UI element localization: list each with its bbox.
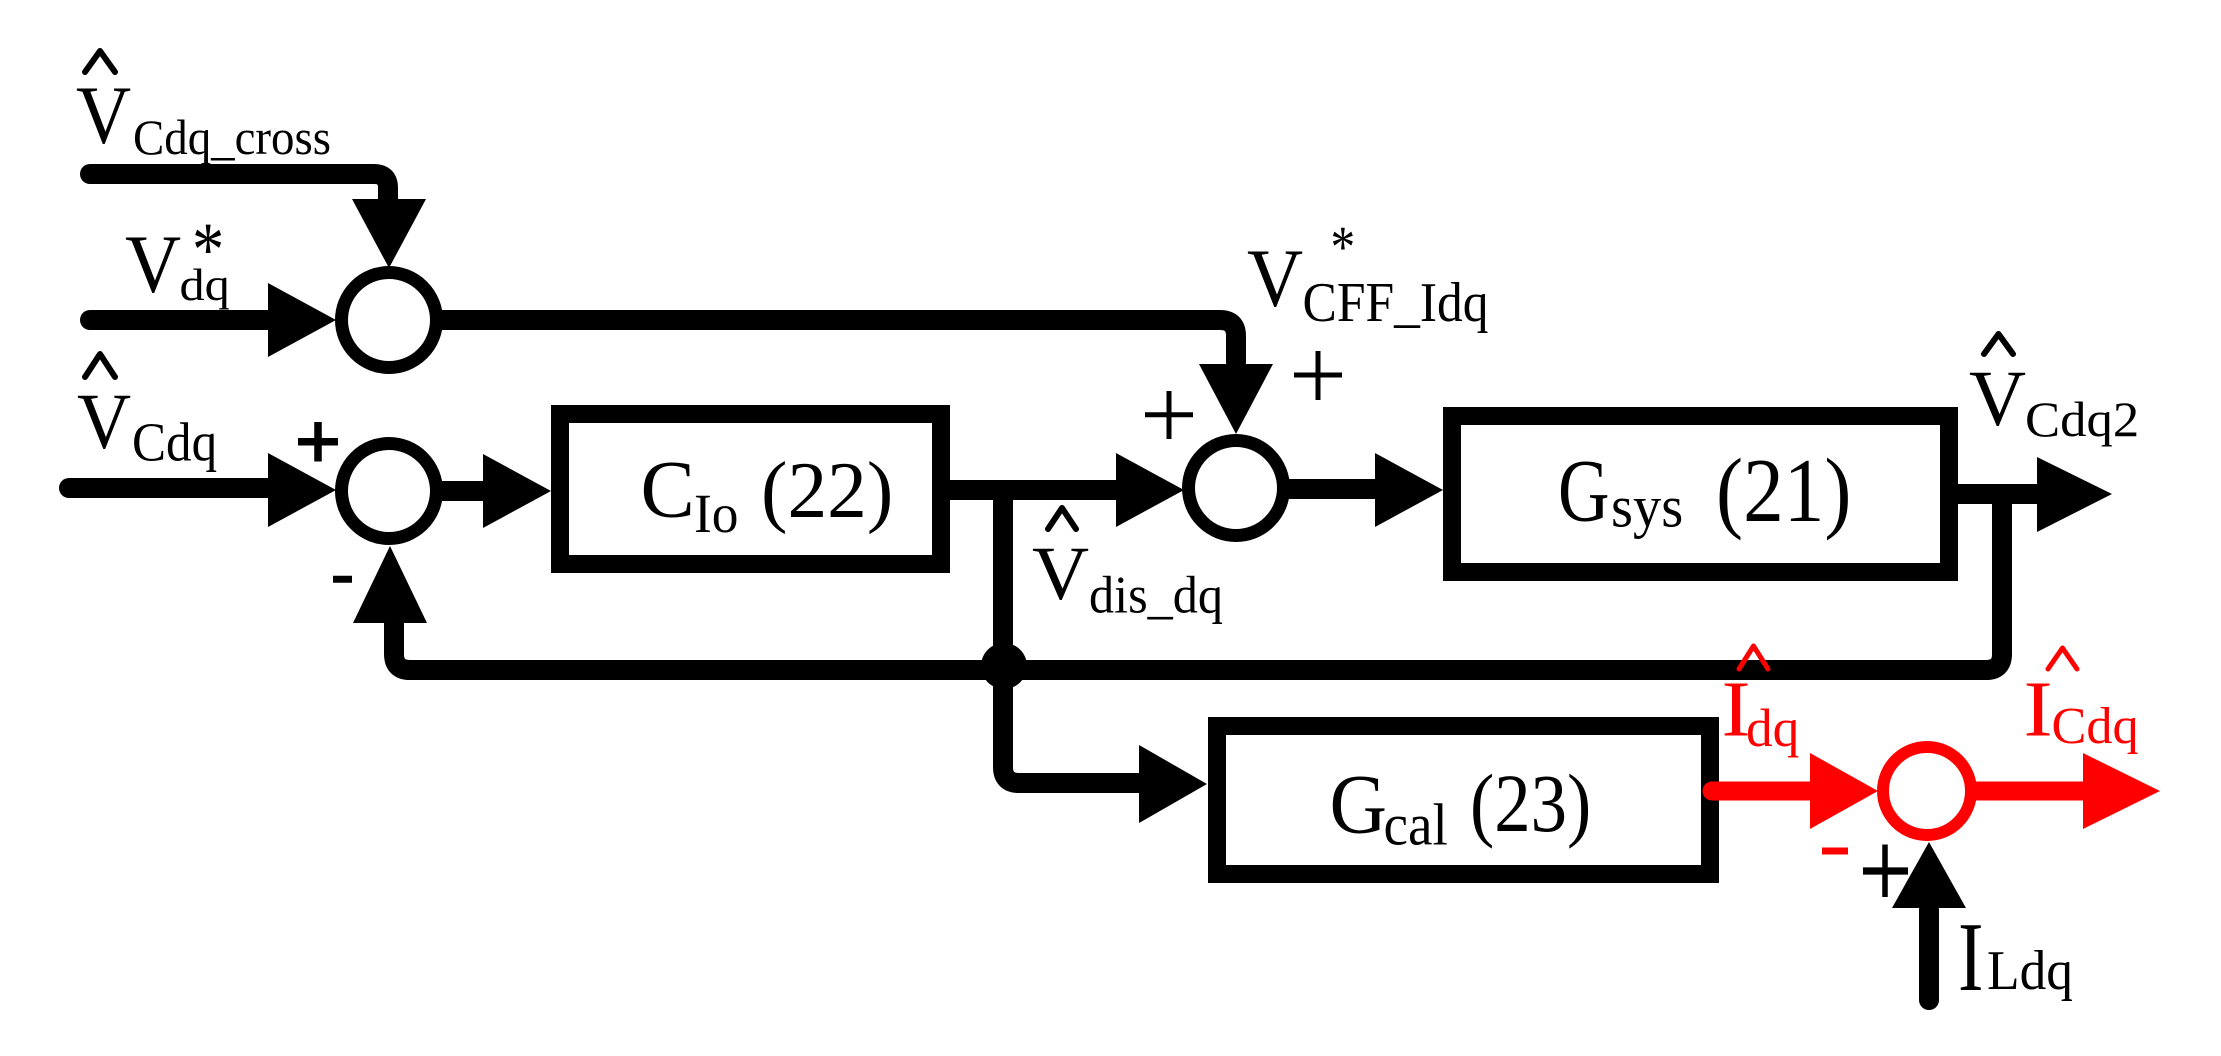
svg-text:Cdq2: Cdq2	[2025, 391, 2139, 447]
svg-text:V: V	[77, 378, 131, 466]
block Gsys (21)	[1452, 416, 1949, 572]
arrowhead into S3 bottom	[353, 546, 427, 623]
hat over V dis_dq	[1048, 508, 1076, 529]
red minus sign at S4	[1822, 848, 1848, 855]
svg-text:V: V	[76, 69, 131, 161]
red wire Gcal to red summing junction S4	[1712, 782, 1812, 801]
summing junction S3	[342, 444, 437, 539]
junction dot on feedback line	[981, 643, 1027, 689]
wire feedback takeoff down, left, and up to S3	[394, 494, 2002, 670]
plus sign left of S2	[1145, 391, 1193, 439]
hat over V Cdq_cross	[85, 51, 115, 72]
red hat over I Cdq	[2048, 648, 2077, 669]
svg-text:*: *	[1331, 214, 1356, 280]
arrowhead into S2 top	[1199, 364, 1273, 434]
wire ILdq input up	[1919, 910, 1939, 1000]
svg-text:I: I	[2024, 666, 2053, 754]
red arrowhead output ICdq	[2083, 753, 2160, 829]
arrowhead into Gcal block	[1139, 745, 1207, 823]
plus sign at S3	[298, 422, 338, 462]
svg-text:V: V	[1969, 355, 2026, 443]
svg-text:V: V	[1247, 232, 1303, 324]
wire Vdq* input	[90, 310, 270, 330]
plus sign right of S2 top arrow	[1294, 351, 1342, 400]
svg-text:Ldq: Ldq	[1987, 940, 2073, 1002]
arrowhead into summing junction S3 left	[268, 453, 336, 527]
wire Gsys output	[1958, 484, 2045, 504]
wire S1 to corner down to summing junction S2	[442, 320, 1236, 362]
svg-text:Cdq_cross: Cdq_cross	[133, 109, 331, 165]
svg-text:cal: cal	[1384, 793, 1448, 858]
svg-text:dq: dq	[180, 259, 230, 310]
svg-text:I: I	[1958, 903, 1984, 1012]
hat over V Cdq2	[1984, 334, 2013, 354]
summing junction S1	[342, 273, 437, 368]
wire branch from Vdis node down to Gcal	[1003, 490, 1141, 783]
svg-text:dis_dq: dis_dq	[1089, 566, 1223, 625]
svg-text:G: G	[1558, 442, 1610, 541]
summing junction S2	[1189, 441, 1284, 536]
minus sign at S3	[333, 576, 352, 583]
arrowhead output VCdq2	[2037, 457, 2112, 532]
arrowhead into S1 left	[268, 283, 336, 357]
arrowhead into S2 left	[1116, 453, 1184, 527]
red summing junction S4	[1883, 747, 1971, 835]
svg-text:Cdq: Cdq	[132, 412, 217, 473]
svg-text:G: G	[1330, 759, 1388, 852]
block Gcal (23)	[1217, 726, 1710, 874]
hat over V Cdq	[85, 354, 115, 377]
svg-text:sys: sys	[1611, 474, 1683, 540]
wire S3 to CIo block	[442, 481, 485, 501]
svg-text:Io: Io	[694, 483, 739, 544]
svg-text:V: V	[125, 218, 181, 310]
svg-text:(21): (21)	[1716, 440, 1851, 541]
red arrowhead into S4 left	[1810, 753, 1878, 829]
plus sign at S4	[1863, 867, 1908, 874]
svg-text:(22): (22)	[761, 447, 893, 535]
red hat over I dq	[1739, 646, 1768, 669]
svg-text:(23): (23)	[1470, 758, 1591, 849]
svg-text:CFF_Idq: CFF_Idq	[1303, 272, 1489, 334]
arrowhead into Gsys block	[1375, 453, 1443, 527]
arrowhead into CIo block	[483, 454, 551, 528]
red wire S4 output	[1975, 782, 2085, 801]
arrowhead into S4 bottom	[1892, 842, 1966, 908]
wire CIo to S2	[950, 480, 1118, 500]
wire S2 to Gsys	[1289, 479, 1377, 499]
svg-text:Cdq: Cdq	[2052, 698, 2139, 755]
svg-text:dq: dq	[1746, 698, 1799, 758]
svg-text:V: V	[1032, 532, 1089, 616]
arrowhead into summing junction S1 top	[352, 199, 426, 268]
wire Vcdq input	[69, 478, 270, 498]
svg-text:C: C	[641, 444, 695, 535]
block CIo (22)	[560, 414, 941, 564]
wire Vcdq_cross input	[90, 174, 388, 199]
